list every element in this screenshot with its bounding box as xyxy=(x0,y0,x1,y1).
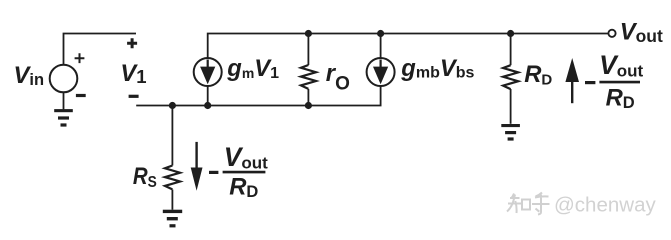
arrow inside gmbVbs source xyxy=(380,60,382,69)
wire rO bottom stub xyxy=(307,89,309,106)
minus sign of V1 xyxy=(129,95,139,98)
fraction bar upper xyxy=(599,81,640,84)
wire Vin bottom to ground xyxy=(63,93,65,110)
output terminal Vout xyxy=(608,30,615,37)
minus sign of upper fraction xyxy=(585,81,595,84)
fraction bar lower xyxy=(223,171,266,174)
wire RD bottom to ground xyxy=(510,89,512,124)
wire rO top stub xyxy=(307,34,309,66)
svg-text:@chenway: @chenway xyxy=(554,194,656,217)
wire top rail xyxy=(208,34,608,59)
current source gmbVbs xyxy=(367,58,395,86)
watermark zhihu characters xyxy=(507,193,550,215)
ground under RD xyxy=(501,124,520,141)
wire gmb source top stub xyxy=(380,34,382,59)
wire gm source top xyxy=(207,86,209,106)
minus sign at Vin source xyxy=(76,94,86,97)
wire RS bottom to ground xyxy=(171,190,173,210)
resistor RD xyxy=(503,65,518,89)
current source gmV1 xyxy=(194,58,222,86)
current arrow up near RD xyxy=(571,80,573,103)
arrow inside gmV1 source xyxy=(207,60,209,69)
plus sign of V1 xyxy=(127,38,137,48)
resistor RS xyxy=(165,166,180,190)
plus sign at Vin source xyxy=(75,53,85,63)
resistor rO xyxy=(301,65,316,89)
wire Vin top to gate xyxy=(64,34,137,66)
wire bottom rail xyxy=(136,86,380,106)
junction dots top rail xyxy=(305,30,312,37)
wire RS tap xyxy=(171,106,173,166)
minus sign of lower fraction xyxy=(209,171,218,174)
ground under Vin xyxy=(54,109,73,127)
junction dots bottom rail xyxy=(169,102,176,109)
voltage source Vin xyxy=(50,65,78,93)
ground under RS xyxy=(163,210,182,228)
current arrow down near RS xyxy=(195,142,197,170)
wire RD top stub xyxy=(510,34,512,66)
